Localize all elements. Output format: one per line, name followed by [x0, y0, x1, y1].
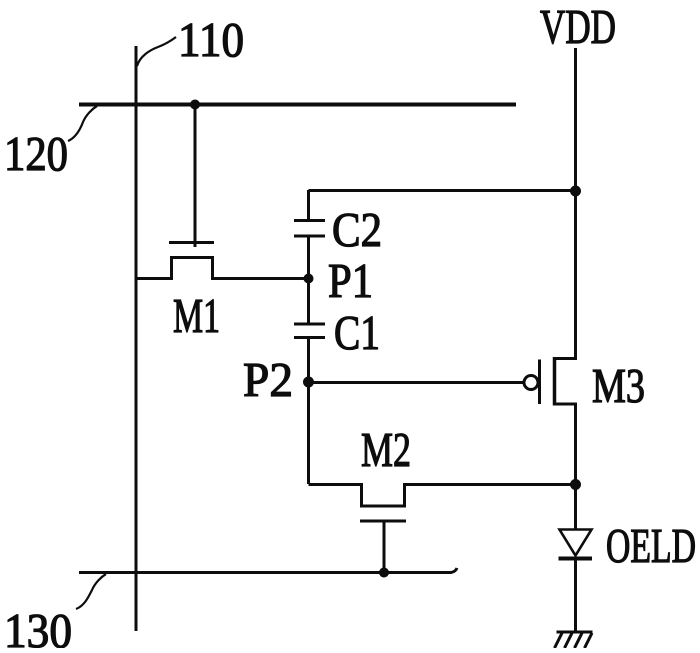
svg-text:VDD: VDD [540, 0, 616, 54]
svg-text:P1: P1 [328, 253, 373, 308]
wire: OELD cathode to ground [574, 560, 577, 631]
capacitor C2 top lead from top rail [307, 190, 310, 220]
transistor M3 gate bar [538, 360, 541, 405]
transistor M1 gate bar [169, 241, 214, 244]
svg-text:M3: M3 [592, 358, 645, 413]
svg-text:M2: M2 [361, 422, 411, 477]
wire: output node down to OELD anode [574, 484, 577, 530]
wire: node P2 down to transistor M2 [307, 383, 310, 485]
wire: C1 to node P2 [307, 339, 310, 383]
wire: C2 bottom lead to node P1 [307, 237, 310, 279]
wire: M2 gate lead to line 130 [383, 521, 386, 573]
power rail VDD vertical line [574, 48, 577, 359]
svg-text:P2: P2 [243, 352, 293, 407]
node P1 junction dot [304, 274, 314, 284]
node P2 junction dot [303, 377, 314, 388]
leader line for 110 [137, 37, 176, 66]
bottom control line 130 (horizontal line) [79, 568, 457, 573]
data line 110 (left vertical line) [135, 46, 138, 631]
transistor M3 gate bubble (PMOS) [524, 376, 538, 390]
capacitor C1 plates [294, 323, 325, 326]
ground bar [557, 631, 593, 634]
transistor M1 channel + wire data line to node P1 [136, 258, 309, 279]
svg-text:M1: M1 [173, 288, 220, 343]
wire: node P1 to capacitor C1 [307, 279, 310, 324]
junction dot: scan line / M1 gate [190, 100, 200, 110]
svg-text:C1: C1 [334, 305, 380, 360]
transistor M3 drain jog from VDD line [555, 357, 576, 359]
svg-text:130: 130 [4, 603, 72, 648]
transistor M3 source jog to output node [555, 404, 576, 484]
ground hatch strokes [555, 633, 563, 648]
wire: M1 gate lead from scan line junction [194, 104, 197, 247]
leader line for 130 [76, 574, 106, 609]
scan line 120 (top horizontal line) [79, 103, 516, 107]
transistor M3 channel bar [553, 357, 557, 406]
transistor M2 channel: source from P2 leg, hump down, drain to VDD leg [309, 485, 576, 507]
svg-text:120: 120 [4, 126, 68, 181]
capacitor C2 plates [294, 219, 325, 222]
transistor M2 gate bar [360, 520, 406, 523]
wire: node P2 to M3 gate circle [309, 381, 524, 384]
diode OELD triangle [560, 530, 592, 556]
junction dot: VDD rail / top wire [570, 186, 581, 197]
svg-text:OELD: OELD [606, 518, 696, 573]
svg-text:C2: C2 [332, 202, 382, 257]
junction dot: M3 source / M2 drain / OELD [570, 479, 581, 490]
diode OELD cathode bar [559, 557, 593, 561]
junction dot: M2 gate / line 130 [379, 568, 389, 578]
wire: top rail from C2 to VDD line [309, 189, 576, 192]
leader line for 120 [68, 106, 97, 141]
svg-text:110: 110 [178, 12, 244, 67]
